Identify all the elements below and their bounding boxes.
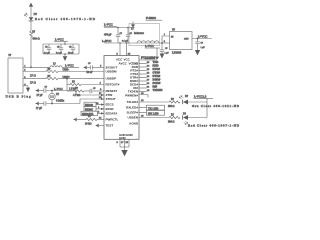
capacitor C2 [56, 44, 63, 54]
wire branch to 1.5k row [67, 84, 70, 86]
svg-text:RXLED#: RXLED# [126, 106, 138, 110]
wire to regulator pins [162, 36, 170, 43]
wire 1.5k to IC RSTOUT [81, 84, 104, 86]
svg-text:Inductor: Inductor [134, 31, 144, 35]
pin stub PWREN [139, 95, 148, 98]
IC internal pin names right [125, 62, 139, 126]
node VCC stub A [119, 42, 121, 44]
capacitor C5 3V3OUT [87, 63, 105, 74]
wire VBUS to LED [30, 9, 32, 17]
svg-text:EECS: EECS [106, 103, 114, 107]
ground arrow XTOUT cap [35, 102, 38, 106]
net label TXLED boxed [139, 105, 165, 110]
IC internal pin names left [106, 58, 139, 141]
wire VCC pin stub A [119, 43, 121, 56]
node VBUS junction [30, 66, 32, 68]
node output cap [197, 38, 199, 40]
crystal X1 6MHz [49, 91, 65, 104]
ferrite bead box [129, 24, 160, 46]
net label F-BMC [146, 16, 163, 20]
svg-text:PWREN#: PWREN# [125, 94, 138, 98]
svg-text:C?: C? [130, 33, 132, 35]
svg-text:C?: C? [201, 42, 203, 44]
svg-text:27 Ω: 27 Ω [30, 74, 36, 78]
resistor R1 600 ohm [30, 31, 33, 38]
svg-text:RSTOUT#: RSTOUT# [106, 83, 120, 87]
capacitor C6 27pF [37, 87, 77, 97]
wire D+ to IC [58, 78, 104, 80]
net label EECS [84, 102, 104, 107]
IC U1 FT232BM body [104, 56, 139, 140]
svg-text:390 Ω: 390 Ω [168, 105, 175, 108]
capacitor C9 0.1uF [122, 28, 132, 44]
power arrow VBUS top [29, 3, 33, 9]
svg-text:C?: C? [45, 46, 47, 48]
svg-text:OUT: OUT [184, 39, 189, 41]
svg-text:470 pF: 470 pF [104, 33, 112, 36]
pin 3 stub D+ [23, 78, 46, 80]
svg-text:L-AVCC: L-AVCC [102, 40, 112, 43]
svg-text:AGND: AGND [129, 122, 139, 126]
AVCC rail bottom [104, 42, 162, 44]
wire D+ branch down [66, 79, 68, 91]
wire L1 to L-VCC label [62, 66, 79, 68]
svg-text:SLEEP#: SLEEP# [126, 111, 138, 115]
ground arrow cap bank [63, 53, 68, 61]
svg-text:AVCC: AVCC [119, 61, 128, 65]
resistor R7 390 ohm [169, 101, 180, 103]
svg-text:390 Ω: 390 Ω [168, 121, 175, 124]
wire TX LED to VCC rail [188, 101, 207, 103]
ground arrow IC [121, 150, 127, 156]
svg-text:PWRCTL: PWRCTL [106, 118, 119, 122]
svg-text:TEST: TEST [106, 124, 114, 128]
svg-text:Red Clear 466-1807-1-ND: Red Clear 466-1807-1-ND [188, 124, 240, 128]
resistor R5 4.7k reset [67, 90, 73, 92]
inductor L2 [137, 41, 159, 43]
svg-text:0.1 μF: 0.1 μF [44, 52, 50, 54]
svg-text:TX LED: TX LED [148, 106, 158, 110]
node XTIN [51, 90, 53, 92]
svg-text:C?: C? [57, 46, 59, 48]
wire R1 to VBUS node [30, 38, 32, 67]
wire RXLED branch [139, 117, 169, 119]
node avcc cap B [127, 27, 129, 29]
svg-text:RX LED: RX LED [148, 112, 159, 116]
svg-text:EEDATA: EEDATA [106, 112, 119, 116]
wire LED to R1 [30, 21, 32, 31]
svg-text:C?: C? [93, 88, 95, 90]
svg-text:0.1 μF: 0.1 μF [122, 41, 128, 43]
node avcc cap A [117, 27, 119, 29]
capacitor C4 reset [84, 90, 90, 92]
node XTOUT [51, 103, 53, 105]
svg-text:4.7 kΩ: 4.7 kΩ [73, 94, 80, 97]
node regulator input [161, 42, 163, 44]
connector P1 USB B plug [8, 58, 23, 93]
wire LED VCC vertical [206, 98, 208, 117]
wire XTOUT to IC [80, 99, 104, 104]
svg-text:C?: C? [165, 48, 167, 50]
IC bottom GND pins [117, 139, 130, 150]
ground arrow C10 [160, 54, 165, 59]
IC right pins TXD..TXDEN [139, 60, 162, 92]
svg-text:33 nF: 33 nF [87, 71, 94, 74]
svg-text:LP2985: LP2985 [172, 51, 182, 55]
svg-text:TXDEN: TXDEN [153, 88, 163, 92]
svg-text:L-VCC: L-VCC [55, 38, 64, 42]
resistor R2 27 ohm D- [46, 70, 58, 72]
svg-text:USBDM: USBDM [106, 70, 118, 74]
wire XTIN to IC [76, 91, 104, 96]
regulator U2 [170, 32, 193, 50]
svg-text:27 pF: 27 pF [37, 94, 44, 97]
svg-text:C?: C? [120, 33, 122, 35]
power arrow VCC pin top right [139, 44, 160, 60]
ground arrow 3V3OUT cap [83, 66, 86, 70]
capacitor C8 470pF [104, 28, 122, 44]
capacitor C11 1uF output [195, 39, 205, 51]
pin 4 stub GND [23, 85, 28, 87]
svg-text:TXLED#: TXLED# [126, 100, 138, 104]
svg-text:Red Clear 466-1075-1-ND: Red Clear 466-1075-1-ND [35, 17, 96, 21]
svg-text:L+VCC: L+VCC [198, 34, 207, 38]
svg-text:L-VCC: L-VCC [104, 23, 113, 27]
resistor R6 10k TEST [77, 115, 104, 125]
svg-text:USBEN: USBEN [127, 116, 138, 120]
wire VCC pin stub B [126, 43, 128, 56]
capacitor C3 [68, 44, 75, 54]
svg-text:C?: C? [69, 46, 71, 48]
capacitor C1 [44, 44, 51, 54]
svg-text:C?: C? [45, 87, 47, 89]
LED D2 TX green [179, 95, 189, 104]
pin 1 stub VBUS [23, 66, 31, 68]
svg-text:Grn Clear 466-1821-ND: Grn Clear 466-1821-ND [192, 104, 240, 108]
resistor R3 27 ohm D+ [46, 77, 58, 79]
capacitor bank L-VCC label [54, 38, 68, 45]
svg-text:L-VCC: L-VCC [145, 44, 154, 48]
svg-text:F-BMC: F-BMC [146, 16, 157, 20]
capacitor C7 27pF [36, 101, 80, 110]
svg-text:27 Ω: 27 Ω [30, 81, 36, 85]
svg-text:XTOUT: XTOUT [106, 97, 116, 101]
svg-text:USB-: USB- [63, 68, 70, 72]
svg-text:6 MHz: 6 MHz [56, 99, 65, 103]
cap bank rails [43, 43, 79, 45]
ground arrow TEST [73, 118, 76, 122]
node D+ junction [66, 78, 68, 80]
net label L-VCC avcc [104, 23, 117, 27]
wire regulator output [192, 38, 212, 40]
power arrow on rail [131, 22, 135, 28]
svg-text:600 Ω: 600 Ω [33, 37, 40, 41]
net label EESK [84, 106, 104, 111]
svg-text:27 pF: 27 pF [36, 107, 43, 110]
node VCC stub B [126, 42, 128, 44]
svg-text:C?: C? [88, 63, 90, 65]
svg-text:0.1 μF: 0.1 μF [56, 52, 62, 54]
svg-text:GND: GND [126, 133, 134, 137]
net label L-VCC led [194, 95, 214, 99]
svg-text:USBDP: USBDP [106, 77, 117, 81]
ground arrow C11 [195, 50, 200, 55]
ground stub TEST pin [95, 124, 104, 128]
svg-text:10 kΩ: 10 kΩ [85, 123, 92, 126]
svg-text:USB B Plug: USB B Plug [6, 95, 31, 99]
svg-text:EESK: EESK [106, 107, 115, 111]
ground arrow XTIN cap [35, 89, 38, 93]
inductor L1 VBUS ferrite [31, 66, 50, 68]
net label EEDATA [81, 111, 104, 116]
capacitor C10 1uF input [160, 43, 170, 54]
wire TXLED branch [139, 101, 169, 103]
AVCC filter rail top [104, 27, 135, 29]
LED D1 power indicator [24, 13, 33, 21]
resistor R8 390 ohm [169, 116, 180, 118]
ground arrow USB shell [26, 86, 30, 92]
LED D3 RX red [183, 112, 188, 124]
svg-text:L-VCC1,3: L-VCC1,3 [194, 95, 207, 99]
pin 2 stub D- [23, 71, 46, 73]
resistor R4 1.5k [70, 83, 81, 85]
net label RXLED boxed [139, 110, 165, 115]
wire RX LED to VCC rail [188, 117, 207, 119]
wire D- to IC [58, 71, 104, 73]
svg-text:10 nF: 10 nF [68, 52, 74, 54]
